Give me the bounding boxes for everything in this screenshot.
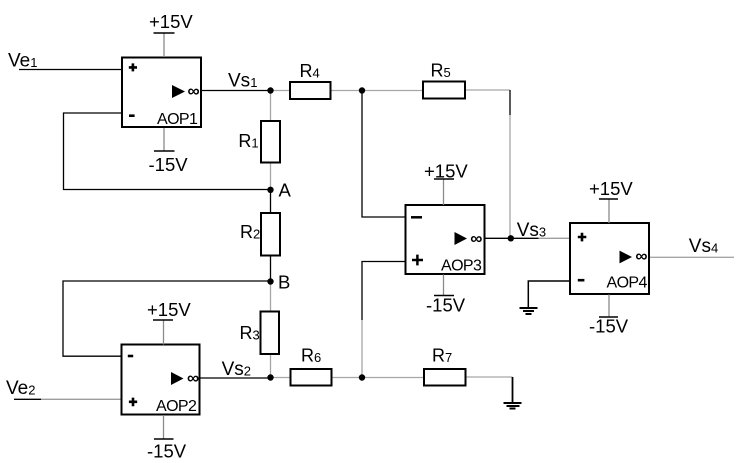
wire AOP1 output to node Vs1 — [202, 90, 271, 92]
svg-text:+15V: +15V — [149, 11, 193, 32]
svg-text:-15V: -15V — [147, 441, 187, 462]
wire R1 to node A — [270, 163, 272, 190]
power -15V AOP3 stem — [443, 275, 445, 296]
wire AOP3 output to AOP4 + input through node Vs3 — [485, 237, 539, 239]
wire AOP2 feedback (- input to node B) — [63, 281, 271, 356]
node Vs2 junction dot — [267, 374, 273, 380]
op-amp AOP2 + input sign — [129, 398, 137, 407]
svg-text:+15V: +15V — [147, 299, 191, 320]
power +15V AOP1 stem — [163, 34, 165, 58]
wire R5 to corner — [466, 89, 510, 91]
power -15V AOP2 bar — [154, 438, 174, 440]
wire AOP4 output Vs4 — [649, 256, 734, 258]
svg-text:AOP3: AOP3 — [441, 258, 482, 275]
svg-text:AOP2: AOP2 — [156, 398, 197, 415]
svg-text:∞: ∞ — [635, 247, 647, 266]
op-amp U2 box AOP2 — [122, 345, 200, 415]
wire AOP1 feedback (- input to node A) — [64, 113, 271, 190]
ground below AOP4 - input — [520, 308, 538, 314]
power -15V AOP1 stem — [163, 128, 165, 151]
wire corner down to node Vs3 — [509, 90, 511, 115]
power +15V AOP4 stem — [608, 200, 610, 224]
power -15V AOP4 stem — [608, 295, 610, 318]
op-amp AOP4 - input sign — [578, 279, 585, 282]
op-amp AOP2 triangle — [171, 372, 184, 385]
svg-text:-15V: -15V — [426, 294, 466, 315]
power +15V AOP2 stem — [163, 321, 165, 345]
resistor R6 — [291, 369, 332, 386]
resistor R4 — [290, 82, 331, 99]
wire node Vs1 to R4 — [271, 90, 290, 92]
wire R6 to node — [333, 377, 363, 379]
op-amp AOP4 triangle — [620, 251, 633, 264]
svg-text:B: B — [278, 271, 290, 292]
power -15V AOP2 stem — [163, 415, 165, 439]
wire node after R4 down to AOP3 - input — [362, 91, 406, 218]
wire node B to R3 — [270, 282, 272, 312]
wire ground stem below R7 — [512, 377, 514, 403]
op-amp AOP3 triangle — [455, 232, 468, 245]
wire AOP3 + input left and down (black part) — [362, 262, 406, 321]
power +15V AOP2 bar — [153, 319, 173, 321]
resistor R3 — [261, 312, 280, 355]
op-amp U1 box AOP1 — [122, 58, 201, 128]
svg-text:∞: ∞ — [187, 368, 199, 387]
svg-text:∞: ∞ — [188, 82, 200, 101]
wire R3 to node Vs2 — [270, 354, 272, 378]
node R6-R7 junction dot — [359, 374, 365, 380]
svg-text:-15V: -15V — [149, 154, 189, 175]
node B junction dot — [267, 278, 273, 284]
wire AOP2 output to node Vs2 — [200, 377, 271, 379]
node Vs3 junction dot — [508, 235, 514, 241]
wire AOP4 - input to ground — [528, 281, 570, 308]
op-amp AOP4 + input sign — [578, 233, 587, 242]
wire Ve2 to AOP2 + input — [14, 398, 41, 400]
power +15V AOP3 bar — [434, 178, 454, 180]
node Vs1 junction dot — [267, 87, 273, 93]
wire node Vs1 down to R1 — [270, 91, 272, 122]
resistor R2 — [261, 213, 280, 256]
wire R4 to R5 through node — [332, 90, 423, 92]
svg-text:+15V: +15V — [589, 178, 633, 199]
op-amp AOP3 + input sign — [412, 255, 423, 266]
op-amp AOP1 - input sign — [129, 114, 135, 117]
op-amp AOP3 - input sign — [411, 216, 422, 219]
op-amp AOP2 - input sign — [128, 355, 133, 358]
op-amp AOP1 triangle — [172, 85, 185, 98]
svg-text:-15V: -15V — [589, 315, 629, 336]
svg-text:A: A — [279, 180, 292, 201]
power +15V AOP4 bar — [599, 198, 618, 200]
wire R7 to ground corner — [467, 376, 513, 378]
power -15V AOP4 bar — [599, 316, 618, 318]
power -15V AOP1 bar — [154, 150, 175, 152]
svg-text:AOP1: AOP1 — [157, 111, 198, 128]
op-amp U4 box AOP4 — [570, 223, 649, 294]
ground right of R7 — [504, 403, 522, 409]
wire node to R7 — [362, 377, 423, 379]
wire AOP3 + vertical lower grey part to node R6R7 — [361, 320, 363, 378]
op-amp AOP1 + input sign — [129, 63, 137, 71]
node A junction dot — [267, 187, 273, 193]
wire Ve1 to AOP1 + input — [19, 69, 121, 71]
resistor R1 — [261, 121, 280, 163]
node after R4 junction dot — [359, 87, 365, 93]
svg-text:+15V: +15V — [424, 160, 468, 181]
power -15V AOP3 bar — [434, 295, 454, 297]
op-amp U3 box AOP3 — [406, 205, 485, 274]
wire R2 to node B — [270, 255, 272, 282]
wire node Vs2 to R6 — [271, 377, 291, 379]
svg-text:AOP4: AOP4 — [607, 275, 648, 292]
svg-text:∞: ∞ — [470, 229, 482, 248]
resistor R7 — [424, 369, 466, 386]
resistor R5 — [423, 82, 465, 99]
power +15V AOP1 bar — [154, 32, 175, 34]
wire node A to R2 — [270, 190, 272, 214]
power +15V AOP3 stem — [443, 180, 445, 206]
